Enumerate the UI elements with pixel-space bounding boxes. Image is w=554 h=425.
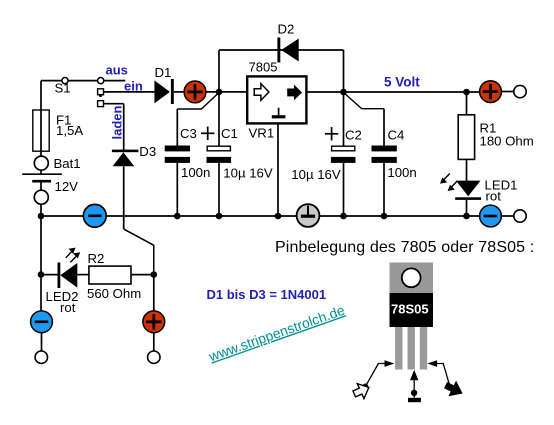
switch S1 aus contact [98,78,104,84]
pin1 input open arrow [351,380,372,401]
switch S1 laden contact square [98,101,104,107]
wire blue terminal to pin [41,333,43,351]
svg-text:5 Volt: 5 Volt [384,75,420,90]
wire node A down to C1 [218,92,220,146]
wire R2 to node [131,274,154,276]
node output junction dot [340,89,347,96]
package body [390,293,434,327]
wire blue terminal to pin right [501,215,514,217]
wire 7805 ground to rail [277,123,279,216]
pin1 lead line [366,364,385,387]
pin2 dot [411,390,417,396]
svg-text:560 Ohm: 560 Ohm [87,286,141,301]
wire red terminal to pin [153,333,155,351]
terminal blue minus rail right [480,205,502,227]
ground rail [41,215,480,217]
svg-text:Bat1: Bat1 [54,156,81,171]
capacitor C3 [165,146,190,163]
wire circle to plate [40,170,42,174]
svg-text:C1: C1 [221,126,238,141]
wire red terminal to output pin [501,91,514,93]
svg-text:10µ 16V: 10µ 16V [291,167,341,182]
pin3 arrow to leg [427,360,437,367]
svg-text:1,5A: 1,5A [56,123,83,138]
wire node A up to D2 line [218,50,220,92]
wire laden vertical to D3 [123,104,125,150]
label plus C1 [201,127,214,140]
wire LED1 to rail [466,200,468,216]
terminal pin bottom right [514,210,526,222]
svg-text:VR1: VR1 [249,126,275,141]
LED1 [440,174,481,200]
svg-text:D3: D3 [139,144,156,159]
terminal pin output top [514,85,526,97]
svg-text:laden: laden [110,105,125,139]
terminal blue minus mid-rail [83,204,106,227]
node LED2 junction dot [38,271,45,278]
wire ein contact to D1 [104,91,155,93]
wire D2 line down to output node [343,50,345,92]
wire node A diagonal to C3 [177,93,219,110]
svg-text:S1: S1 [55,81,71,96]
wire output node down to R1 [466,92,468,115]
wire LED2 to R2 [77,274,89,276]
capacitor C4 [372,146,397,163]
pin1 arrow to leg [385,360,395,367]
svg-text:12V: 12V [55,179,79,194]
svg-text:R2: R2 [88,251,105,266]
pin2 ground bar [408,398,421,402]
wire C3 bottom to rail [176,163,178,216]
ground circle symbol on rail [297,204,320,227]
svg-text:rot: rot [486,188,502,203]
svg-text:10µ 16V: 10µ 16V [223,166,273,181]
terminal red plus bottom [143,311,165,333]
wire laden contact horizontal [104,103,124,105]
ground symbol inside box [278,108,280,115]
svg-text:rot: rot [60,300,76,315]
wire C1 bottom to rail [218,163,220,216]
capacitor C1 electrolytic [207,146,232,163]
wire bottom circle to rail [40,204,42,216]
terminal red plus T1 [184,81,206,103]
wire output node down to C2 [343,92,345,146]
package 78S05 tab [390,263,434,294]
package leg 2 [408,327,415,370]
pin3 lead line [437,364,449,385]
svg-text:7805: 7805 [249,59,278,74]
wire node up diagonal to D3 [124,229,154,274]
package mounting hole [402,268,421,287]
wire rail down left branch [40,216,42,311]
svg-text:78S05: 78S05 [391,302,429,317]
battery Bat1 top terminal circle [34,156,48,170]
svg-text:D1: D1 [155,65,172,80]
svg-text:aus: aus [106,62,128,77]
node output right junction dot [463,89,470,96]
terminal blue minus bottom left [31,311,53,333]
svg-text:Pinbelegung des 7805 oder 78S0: Pinbelegung des 7805 oder 78S05 : [275,239,534,256]
wire T1 to node A and 7805 input [206,91,248,93]
wire junction to LED2 [41,274,58,276]
pin3 output filled arrow [442,377,467,401]
wire F1 to Bat1 [40,151,42,156]
diode D3 [112,150,138,167]
pin2 arrow up to leg [410,370,418,380]
terminal red plus output [480,81,502,103]
fuse F1 [33,110,49,151]
node R2 right junction dot [151,271,158,278]
wire D3 anode down across rail [123,166,125,229]
terminal pin bottom left [35,351,47,363]
battery plates [22,174,62,181]
wire diagonal D3 to R2 node [124,229,154,274]
input open arrow [254,84,269,101]
wire R1 to LED1 [466,159,468,181]
wire plate to lower circle [40,181,42,190]
wire D1 to terminal T1 [174,91,185,93]
output filled arrow [287,85,302,101]
wire node down to red terminal [153,275,155,311]
svg-text:C2: C2 [345,127,362,142]
capacitor C2 electrolytic [331,146,356,163]
wire C2 bottom to rail [343,163,345,216]
regulator U1 7805 box [247,76,306,123]
wire 7805 output to right terminal [306,91,479,93]
node A junction dot [216,89,223,96]
wire top from battery column to switch [41,80,125,82]
pin1 line end dot [363,384,369,390]
wire C4 vertical top [383,109,385,146]
diode D1 [154,79,173,104]
rail junction dots [38,213,470,220]
wire output node diagonal to C4 [344,93,385,109]
terminal pin bottom mid [148,351,160,363]
svg-text:100n: 100n [387,165,416,180]
switch S1 pivot contact [62,78,68,84]
label plus C2 [325,127,338,140]
battery bottom terminal circle [34,190,48,204]
switch S1 ein contact square [98,89,104,95]
wire D2 top line [219,49,344,51]
svg-text:180 Ohm: 180 Ohm [480,134,534,149]
svg-text:C4: C4 [388,127,405,142]
wire C4 bottom to rail [383,163,385,216]
wire left vertical battery column top [40,81,42,110]
LED2 [58,248,81,288]
diode D2 [277,38,298,63]
resistor R2 [89,266,131,284]
resistor R1 [458,115,474,160]
svg-text:C3: C3 [180,126,197,141]
wire C3 vertical top [176,109,178,146]
svg-text:D2: D2 [278,22,295,37]
pin2 stem line [413,380,415,398]
switch S1 ein contact pin dot [99,94,102,97]
svg-text:D1 bis D3 = 1N4001: D1 bis D3 = 1N4001 [207,287,327,302]
svg-text:100n: 100n [181,165,210,180]
package leg 1 [395,327,402,370]
package leg 3 [420,327,427,370]
